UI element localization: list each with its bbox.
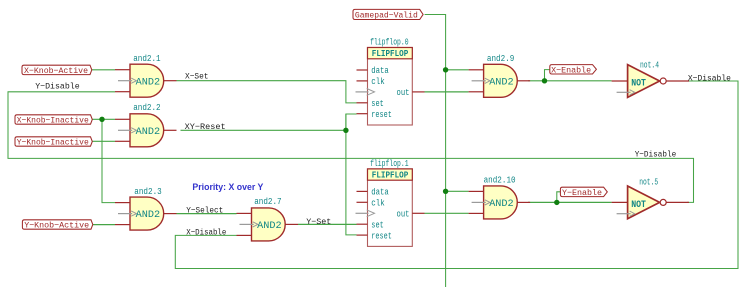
svg-text:Y−Select: Y−Select: [186, 206, 223, 216]
svg-text:AND2: AND2: [489, 198, 514, 210]
svg-text:and2.10: and2.10: [484, 176, 516, 186]
svg-text:Priority: X over Y: Priority: X over Y: [192, 182, 263, 192]
svg-text:data: data: [371, 66, 389, 76]
svg-text:Y−Enable: Y−Enable: [562, 188, 602, 198]
svg-text:X−Knob−Active: X−Knob−Active: [24, 66, 88, 76]
svg-text:X−Disable: X−Disable: [688, 74, 731, 84]
svg-text:out: out: [397, 210, 410, 220]
svg-text:data: data: [371, 188, 389, 198]
svg-text:AND2: AND2: [489, 76, 514, 88]
svg-text:flipflop.1: flipflop.1: [370, 159, 409, 169]
svg-text:out: out: [397, 88, 410, 98]
svg-text:NOT: NOT: [631, 200, 646, 211]
svg-text:and2.1: and2.1: [133, 54, 160, 64]
svg-text:not.5: not.5: [639, 177, 658, 187]
svg-text:and2.3: and2.3: [134, 187, 161, 197]
svg-text:Gamepad−Valid: Gamepad−Valid: [355, 11, 418, 21]
svg-text:X−Enable: X−Enable: [551, 65, 591, 75]
svg-text:Y−Knob−Active: Y−Knob−Active: [24, 221, 89, 231]
svg-text:set: set: [371, 220, 384, 230]
svg-text:flipflop.0: flipflop.0: [370, 38, 409, 48]
svg-text:set: set: [371, 99, 384, 109]
svg-text:clk: clk: [371, 77, 385, 87]
svg-text:AND2: AND2: [257, 220, 282, 232]
svg-text:reset: reset: [371, 231, 392, 241]
svg-text:and2.9: and2.9: [487, 54, 514, 64]
svg-text:Y−Disable: Y−Disable: [635, 150, 677, 160]
svg-text:reset: reset: [371, 110, 392, 120]
svg-text:Y−Set: Y−Set: [306, 217, 331, 227]
svg-text:X−Set: X−Set: [185, 72, 209, 82]
svg-text:AND2: AND2: [136, 209, 161, 221]
svg-text:NOT: NOT: [631, 78, 646, 89]
svg-text:X−Knob−Inactive: X−Knob−Inactive: [17, 116, 89, 126]
svg-text:AND2: AND2: [136, 76, 161, 88]
svg-text:Y−Disable: Y−Disable: [35, 82, 79, 92]
svg-text:FLIPFLOP: FLIPFLOP: [372, 170, 409, 181]
svg-text:clk: clk: [371, 199, 385, 209]
svg-text:Y−Knob−Inactive: Y−Knob−Inactive: [17, 138, 89, 148]
svg-text:and2.7: and2.7: [254, 197, 281, 207]
svg-text:FLIPFLOP: FLIPFLOP: [372, 48, 409, 59]
svg-text:AND2: AND2: [136, 126, 161, 138]
svg-text:and2.2: and2.2: [133, 103, 160, 113]
svg-text:not.4: not.4: [640, 61, 659, 71]
svg-text:X−Disable: X−Disable: [186, 227, 226, 237]
svg-text:XY−Reset: XY−Reset: [185, 122, 226, 132]
